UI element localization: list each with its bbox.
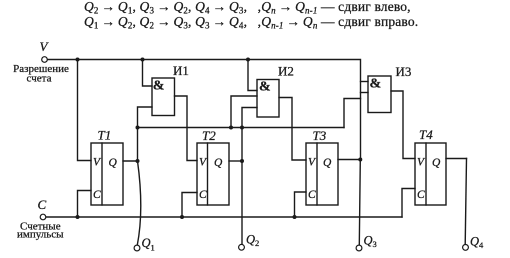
junction dot Q3 line <box>358 158 362 162</box>
svg-text:C: C <box>417 189 425 201</box>
wire: Q4 drop to terminal <box>465 159 466 245</box>
wire: I2 output to T3 V input <box>279 98 306 161</box>
svg-text:C: C <box>38 197 47 212</box>
svg-text:C: C <box>199 189 207 201</box>
terminal C <box>40 214 46 220</box>
wire: V enable top bus with corner down to Q3 riser column <box>47 60 360 160</box>
svg-text:импульсы: импульсы <box>17 229 64 241</box>
junction dot C bus / T3.C <box>293 215 297 219</box>
svg-text:Т2: Т2 <box>202 128 216 143</box>
wire: C clock bus <box>46 216 402 218</box>
wire: Q3 drop to terminal <box>359 160 360 245</box>
svg-text:Q: Q <box>246 233 255 247</box>
wire: I3 input stub 1 <box>361 81 369 83</box>
wire: T2 C input tap <box>182 193 197 218</box>
flip-flop T4 box <box>415 143 446 205</box>
AND gate I3 box <box>368 76 391 113</box>
wire: Q2 drop to terminal <box>241 161 243 244</box>
junction dot V bus / I1 <box>141 58 145 62</box>
wire: drop to AND gate I2 input 1 <box>248 60 257 91</box>
junction dot C bus / T1.C <box>76 215 80 219</box>
svg-text:1: 1 <box>151 243 155 253</box>
junction dot C bus / T2.C <box>180 215 184 219</box>
wire: I2 input 3 from Q2 riser <box>242 108 257 162</box>
wire: T4 Q output <box>446 158 467 160</box>
svg-text:&: & <box>259 80 271 95</box>
wire: T1 Q output <box>123 160 138 162</box>
wire: I3 output to T4 V input <box>391 91 415 159</box>
wire: drop to T1 V input <box>78 60 92 161</box>
svg-text:2: 2 <box>255 238 259 248</box>
svg-text:Q: Q <box>432 157 441 169</box>
svg-text:3: 3 <box>373 239 377 249</box>
wire: T4 C input tap <box>402 189 415 218</box>
terminal Q4 <box>463 245 469 251</box>
svg-text:C: C <box>308 189 316 201</box>
AND gate I2 box <box>257 80 279 118</box>
svg-text:Q: Q <box>364 234 373 248</box>
svg-text:Q: Q <box>142 236 151 250</box>
junction dot V bus / T1.V <box>76 58 80 62</box>
wire: I2 input 2 tap from bus <box>231 96 257 128</box>
svg-text:&: & <box>153 79 165 94</box>
junction dot bus / I2 in2 <box>229 126 233 130</box>
wire: Q1 drop to terminal <box>137 161 141 245</box>
AND gate I1 box <box>152 78 175 116</box>
wire: T3 Q output <box>338 159 361 161</box>
wire: T1 C input tap <box>78 191 92 218</box>
svg-text:&: & <box>370 77 382 92</box>
junction dot V bus / I2 <box>246 58 250 62</box>
terminal Q2 <box>239 244 245 250</box>
junction dot bus / Q2 riser <box>240 126 244 130</box>
svg-text:Т1: Т1 <box>98 128 112 143</box>
wire: T3 C input tap <box>295 192 307 217</box>
svg-text:Т4: Т4 <box>419 127 433 142</box>
junction dot bus start Q1 <box>136 126 140 130</box>
terminal Q3 <box>356 245 362 251</box>
svg-text:Q1 → Q2, Q2 → Q3, Q3 → Q4, ,: Q1 → Q2, Q2 → Q3, Q3 → Q4, ,Qn-1 → Qn — … <box>84 14 418 31</box>
wire: I3 input stub 2 <box>361 92 369 94</box>
svg-text:И3: И3 <box>396 64 412 79</box>
flip-flop T1 box <box>91 143 123 205</box>
junction dot Q1 line <box>136 159 140 163</box>
svg-text:Q: Q <box>470 235 479 249</box>
svg-text:Т3: Т3 <box>313 128 327 143</box>
wire: I1 input 2 from Q1 riser <box>138 107 153 161</box>
svg-text:Q: Q <box>109 157 118 169</box>
wire: carry bus Q1/Q2 horizontal <box>138 127 345 129</box>
svg-text:Q: Q <box>214 157 223 169</box>
svg-text:И1: И1 <box>173 63 189 78</box>
svg-text:И2: И2 <box>278 64 294 79</box>
svg-text:C: C <box>93 189 101 201</box>
svg-text:Q: Q <box>323 157 332 169</box>
wire: drop to AND gate I1 input 1 <box>143 60 153 87</box>
svg-text:счета: счета <box>27 73 52 85</box>
junction dot Q2 line <box>240 159 244 163</box>
flip-flop T3 box <box>306 143 338 205</box>
terminal Q1 <box>134 245 140 251</box>
flip-flop T2 box <box>197 143 229 205</box>
wire: I1 output to T2 V input <box>175 96 198 161</box>
wire: bus riser to I3 <box>344 99 361 128</box>
wire: T2 Q output <box>229 160 242 162</box>
terminal V <box>42 57 48 63</box>
